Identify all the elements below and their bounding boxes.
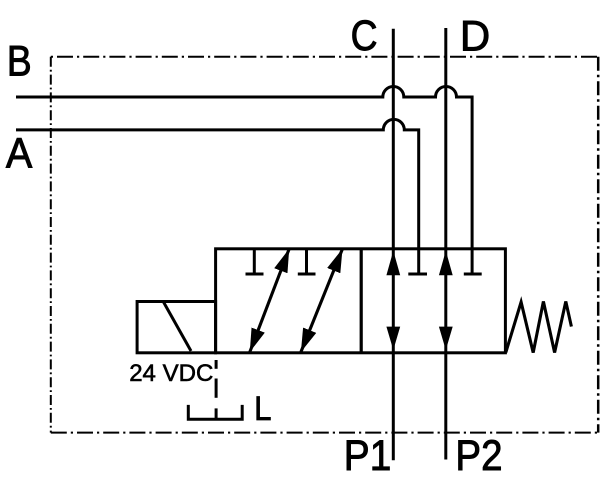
- enclosure dash-dot border bottom: [51, 432, 598, 434]
- flow arrowhead up on C (right section): [386, 251, 400, 275]
- crossed flow arrow 1 (left section): [250, 249, 289, 352]
- drain/tank symbol: [188, 405, 242, 419]
- blocked port T left-section 1: [246, 250, 264, 274]
- blocked port T right-section A: [408, 250, 427, 274]
- port label D: [460, 12, 490, 60]
- flow arrowhead down on C (right section): [386, 327, 400, 350]
- port label B: [7, 38, 32, 86]
- port label P2: [455, 432, 502, 480]
- flow arrowhead up on D (right section): [439, 251, 453, 275]
- enclosure dash-dot border right: [597, 57, 600, 433]
- wire C vertical from top through valve to P1: [392, 29, 395, 461]
- crossed flow arrow 2 (left section): [301, 249, 343, 352]
- blocked port T left-section 2: [298, 250, 316, 274]
- svg-text:C: C: [351, 12, 378, 60]
- svg-text:B: B: [7, 38, 32, 86]
- drain label L: [254, 390, 271, 428]
- return spring: [506, 301, 572, 352]
- svg-text:P1: P1: [344, 432, 392, 480]
- flow arrowhead down on D (right section): [439, 327, 453, 350]
- blocked port T right-section B: [464, 250, 482, 274]
- value label 24 VDC: [129, 360, 213, 387]
- solenoid diagonal stroke: [164, 302, 192, 351]
- wire B horizontal with hops over C and D, corner down to valve port: [16, 87, 472, 251]
- svg-text:A: A: [6, 129, 33, 177]
- svg-text:P2: P2: [455, 432, 502, 480]
- svg-text:24 VDC: 24 VDC: [129, 360, 213, 387]
- enclosure dash-dot border top: [51, 56, 598, 58]
- wire A horizontal with hop over C, corner down to valve port: [16, 119, 419, 250]
- svg-text:L: L: [254, 390, 271, 428]
- port label P1: [344, 432, 392, 480]
- valve section divider: [360, 249, 363, 353]
- enclosure dash-dot border left: [50, 57, 52, 433]
- dashed drain wire below solenoid: [215, 360, 218, 420]
- port label C: [351, 12, 378, 60]
- svg-text:D: D: [460, 12, 490, 60]
- wire D vertical from top through valve to P2: [444, 28, 447, 460]
- solenoid S1 box: [137, 302, 216, 353]
- valve body V1 outline: [216, 249, 506, 353]
- port label A: [6, 129, 33, 177]
